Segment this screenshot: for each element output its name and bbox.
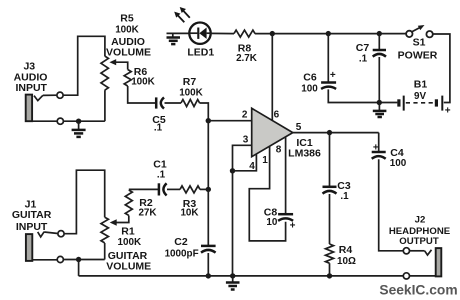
svg-text:+: + [445,106,451,117]
svg-text:8: 8 [276,145,282,156]
wire junction down to bottom rail [78,260,80,276]
label C4 100 [390,147,407,169]
wire R1 bottom to J1 sleeve [104,243,106,260]
resistor R6 [124,70,131,86]
svg-text:INPUT: INPUT [16,221,48,233]
label C1 .1 [153,159,167,181]
wire down to C2 [207,189,209,246]
svg-text:R7: R7 [183,76,197,88]
node C6 rail [326,31,331,36]
potentiometer R5 [101,56,128,90]
svg-text:R1: R1 [121,226,135,238]
wire C1 to R3 [167,188,180,190]
svg-text:.1: .1 [154,123,163,134]
svg-text:100K: 100K [179,87,203,98]
label R4 10ohm [337,244,356,267]
svg-text:GUITAR: GUITAR [12,209,52,221]
label R8 2.7K [236,43,258,64]
wire pin5 to C4 [378,133,380,152]
label R6 100K [131,66,155,88]
label J1 GUITAR INPUT [12,199,52,234]
svg-text:2: 2 [242,110,248,121]
label C8 10 [264,207,278,228]
svg-text:C7: C7 [356,42,370,54]
wire C1 line from R2 top [129,188,158,190]
svg-text:S1: S1 [413,37,426,49]
label R1 100K GUITAR VOLUME [106,226,151,273]
wire bottom rail [79,275,404,277]
wire pin 6 [271,34,273,121]
capacitor C8 [278,214,296,231]
svg-text:INPUT: INPUT [15,82,47,94]
wire LED to R8 [211,32,235,34]
svg-text:B1: B1 [414,79,428,91]
switch S1 [406,25,433,37]
node pin6 rail [270,31,275,36]
svg-text:J2: J2 [415,215,426,226]
wire R5 bottom to J3 sleeve [104,90,106,121]
ground at J3 [72,121,86,137]
wire pin 8 [285,137,287,214]
svg-text:6: 6 [274,110,280,121]
wire ground to LED [167,32,190,34]
resistor R2 [125,190,132,215]
wire top rail [255,33,406,35]
label C3 .1 [337,180,351,202]
label S1 POWER [398,37,438,62]
wire C5 to R7 [165,102,182,104]
jack J3 body [26,92,64,124]
node R4/rail [327,273,332,278]
wire R4 to rail [329,263,331,276]
wire J1 tip to R1 top [64,170,105,234]
label C7 .1 [356,42,370,64]
node R7/pin2 [206,118,211,123]
capacitor C7 [373,50,386,57]
wire C3 to R4 [329,194,331,244]
wire C6 to power bottom line [328,89,397,102]
svg-text:2.7K: 2.7K [236,53,258,64]
label B1 9V [414,79,428,102]
ground at C7 [373,103,387,118]
svg-text:100K: 100K [115,25,139,36]
svg-text:3: 3 [243,135,249,146]
resistor R3 [180,186,200,193]
wire down to C3 [329,133,331,187]
resistor R7 [181,100,200,107]
svg-text:R5: R5 [120,13,134,25]
svg-text:LED1: LED1 [187,46,214,58]
svg-text:100K: 100K [131,77,155,88]
wire R2 bottom to R1 wiper [110,216,129,226]
capacitor C2 [201,246,216,253]
jack J2 [403,248,441,279]
node C7/battery/ground [377,100,382,105]
resistor R8 [234,30,255,37]
wire pin 1 loop [249,146,285,241]
label R3 10K [180,198,199,218]
svg-text:+: + [290,221,296,232]
wire node down to C1 node [207,121,209,190]
capacitor C6 [321,70,336,89]
svg-text:100K: 100K [117,237,141,248]
wire J3 tip to R5 top [63,36,105,95]
svg-text:.1: .1 [157,169,166,180]
svg-text:9V: 9V [414,91,426,102]
svg-text:VOLUME: VOLUME [106,261,151,273]
ground at bottom rail [226,276,240,290]
wire C2 to bottom rail [207,253,209,276]
pin labels [242,110,302,173]
node C7 rail [377,31,382,36]
label C2 1000pF [165,236,199,259]
label C5 .1 [152,114,166,134]
capacitor C3 [323,187,337,194]
wire C4 to J2 tip [379,159,404,251]
jack J1 body [26,231,64,263]
svg-text:LM386: LM386 [288,148,321,160]
label J3 AUDIO INPUT [14,61,48,95]
label IC1 LM386 [288,137,321,160]
svg-text:10Ω: 10Ω [337,256,356,267]
wire pin 2 [208,120,251,122]
wire R7 to pin2 node [200,103,209,121]
capacitor C5 [156,97,164,108]
capacitor C1 [159,183,167,195]
node pin3/pin4 [230,168,235,173]
svg-text:HEADPHONE: HEADPHONE [389,226,451,237]
svg-text:SeekIC.com: SeekIC.com [379,282,457,297]
node C2/rail [206,273,211,278]
svg-text:10K: 10K [180,207,199,218]
svg-text:C6: C6 [303,72,317,84]
wire C7 to ground node [378,57,380,103]
node rail/ground [230,273,235,278]
svg-text:100: 100 [301,84,318,95]
svg-text:1: 1 [262,155,268,166]
svg-text:OUTPUT: OUTPUT [399,236,439,247]
label C6 100 [301,72,318,95]
ground at LED [167,33,181,44]
svg-text:POWER: POWER [398,50,438,62]
svg-text:.1: .1 [340,191,349,202]
svg-text:100: 100 [390,158,407,169]
wire rail to C6 [327,34,329,83]
svg-text:+: + [330,70,336,81]
label J2 HEADPHONE OUTPUT [389,215,451,248]
wire switch to right edge down to battery [433,34,450,103]
wire pin 4 stub [233,154,257,171]
svg-text:1000pF: 1000pF [165,248,199,259]
resistor R4 [326,244,334,263]
node J3 sleeve junction [76,119,81,124]
label R2 27K [138,197,157,218]
capacitor C4 [372,143,386,159]
svg-text:VOLUME: VOLUME [106,47,151,59]
label R5 100K AUDIO VOLUME [106,13,151,59]
svg-text:C2: C2 [174,236,188,248]
svg-text:.1: .1 [359,53,368,64]
svg-text:5: 5 [296,122,302,133]
wire pin 5 output [293,132,379,134]
battery B1 [399,96,451,117]
wire R3 to node [200,188,208,190]
svg-text:27K: 27K [138,207,157,218]
LED LED1 [174,7,211,44]
wire R6 to C5 [128,86,155,103]
node C1/R3 junction [206,187,211,192]
svg-text:+: + [373,143,379,154]
svg-text:R4: R4 [339,244,353,256]
node pin5/C3 [327,130,332,135]
label R7 100K [179,76,203,98]
wire pin 3 [233,145,252,171]
svg-text:10: 10 [266,217,277,228]
potentiometer R1 [101,217,108,243]
op-amp IC1 LM386 [252,108,293,156]
wire pin3 node down to rail [232,171,234,276]
wire rail to C7 [378,34,380,50]
node J1 sleeve junction [76,257,81,262]
